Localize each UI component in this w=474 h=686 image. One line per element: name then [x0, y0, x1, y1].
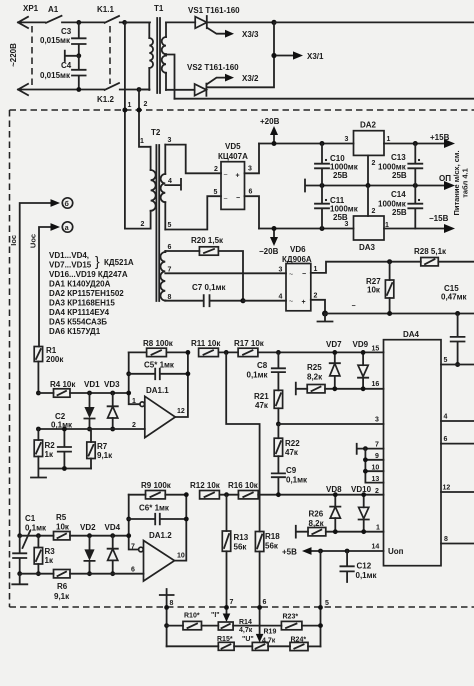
svg-text:10к: 10к: [367, 286, 381, 295]
svg-text:~: ~: [224, 196, 228, 203]
svg-text:−: −: [302, 271, 306, 278]
node C2 bottom: [62, 466, 67, 471]
capacitor C1: [13, 536, 26, 574]
resistor R3 label: [45, 547, 56, 565]
capacitor C13 label: [378, 153, 407, 180]
node fb C6: [126, 517, 131, 522]
node VD9 top: [361, 350, 366, 355]
relay link dashed: [109, 26, 111, 84]
capacitor C5: [129, 369, 188, 380]
diode VD7: [330, 352, 340, 388]
node mid C3/C4: [76, 53, 81, 58]
node VD9 bottom: [361, 386, 366, 391]
node pin9: [363, 457, 368, 462]
top output rail: [274, 21, 474, 23]
svg-text:A1: A1: [48, 5, 59, 14]
DA4 pin7 terminal bar: [357, 444, 384, 454]
-20V arrow: [259, 229, 279, 257]
svg-text:~220B: ~220B: [9, 43, 18, 67]
node R11 R17: [224, 350, 229, 355]
node VD10 bottom: [361, 529, 366, 534]
DA4 pin8 wire: [441, 543, 474, 545]
svg-text:DA4 КР1114ЕУ4: DA4 КР1114ЕУ4: [49, 308, 110, 317]
svg-text:~: ~: [224, 172, 228, 179]
resistor R10: [167, 621, 219, 629]
node C2 top: [62, 427, 67, 432]
DA4 pin5 wire: [441, 364, 474, 366]
R28 right wire: [438, 261, 474, 263]
feedback left vertical DA12: [129, 495, 139, 550]
VD5 pin6 wire down: [245, 196, 260, 228]
node R21 R22: [276, 422, 281, 427]
node VD4 bottom: [110, 571, 115, 576]
DA4 pin6 wire: [441, 443, 474, 445]
XP1 terminal arrow top: [18, 17, 45, 28]
node VD7 top: [332, 350, 337, 355]
svg-text:R7: R7: [97, 442, 108, 451]
svg-text:VD3: VD3: [104, 380, 120, 389]
svg-text:1: 1: [314, 266, 318, 273]
svg-text:R16 10к: R16 10к: [228, 481, 259, 490]
svg-text:R6: R6: [57, 582, 68, 591]
capacitor C8: [272, 352, 285, 390]
svg-text:−15B: −15B: [429, 214, 449, 223]
feedback left vertical DA11: [129, 352, 140, 404]
arrow X3/1: [277, 51, 324, 61]
capacitor C13: [408, 144, 422, 186]
svg-text:1: 1: [128, 102, 132, 109]
resistor R9: [129, 491, 187, 499]
svg-text:VS2 T161-160: VS2 T161-160: [187, 63, 239, 72]
node top C3: [76, 20, 81, 25]
svg-text:1: 1: [376, 525, 380, 532]
svg-text:47к: 47к: [255, 401, 269, 410]
svg-text:DA3: DA3: [359, 243, 376, 252]
diode VD1: [84, 393, 94, 429]
node out R9: [184, 492, 189, 497]
bridge VD5: [221, 162, 245, 210]
svg-text:0,015мк: 0,015мк: [40, 36, 71, 45]
VD6 pin2 wire: [311, 300, 325, 314]
node +20 arrow: [272, 141, 277, 146]
svg-text:R2: R2: [45, 441, 56, 450]
svg-text:5: 5: [325, 600, 329, 607]
svg-text:C8: C8: [257, 361, 268, 370]
T2 secondary2 winding: [160, 251, 165, 301]
svg-text:"I": "I": [211, 612, 220, 619]
node 5 border: [318, 605, 323, 610]
svg-text:DA2: DA2: [360, 121, 377, 130]
node R12 R16: [224, 492, 229, 497]
svg-text:25B: 25B: [392, 171, 407, 180]
T2 center tap tick: [165, 179, 181, 190]
svg-text:8: 8: [444, 536, 448, 543]
IC DA4: [384, 340, 442, 566]
svg-text:+15B: +15B: [430, 133, 450, 142]
node fb C5: [126, 371, 131, 376]
svg-text:8,2к: 8,2к: [307, 373, 323, 382]
resistor R13 label: [234, 533, 249, 552]
node -20 arrow: [272, 226, 277, 231]
svg-text:8: 8: [170, 600, 174, 607]
diode VD2: [84, 536, 94, 574]
node C15 top: [455, 311, 460, 316]
node VD1 bottom: [87, 427, 92, 432]
svg-text:Uос: Uос: [29, 234, 38, 248]
svg-text:3: 3: [279, 267, 283, 274]
svg-text:VS1 T161-160: VS1 T161-160: [188, 6, 240, 15]
svg-text:+5B: +5B: [282, 548, 297, 557]
svg-text:56к: 56к: [234, 543, 248, 552]
+5V arrow: [282, 547, 312, 556]
feedback tap arrow b: [20, 199, 60, 535]
terminal circle a: [62, 222, 72, 232]
svg-text:9: 9: [375, 453, 379, 460]
svg-text:0,1мк: 0,1мк: [25, 524, 47, 533]
R25 terminal bar: [296, 383, 307, 395]
node pin10: [363, 469, 368, 474]
relay contact K1.2: [105, 83, 150, 90]
capacitor C11: [315, 186, 329, 229]
svg-text:R20 1,5к: R20 1,5к: [191, 236, 224, 245]
node out C5: [186, 371, 191, 376]
feedback tap arrow a: [39, 223, 60, 346]
node X3/1: [271, 53, 276, 58]
svg-text:10: 10: [177, 553, 185, 560]
node sense8 border: [164, 605, 169, 610]
regulator DA2: [354, 131, 385, 156]
minus rail: [325, 313, 474, 315]
svg-text:47к: 47к: [285, 448, 299, 457]
+20V rail: [259, 143, 354, 145]
ground symbol R2: [31, 469, 46, 478]
node R27 top: [387, 259, 392, 264]
svg-text:2: 2: [132, 422, 136, 429]
resistor R6: [54, 570, 71, 578]
resistor R26: [308, 528, 384, 536]
VS1 cathode wire: [207, 21, 274, 23]
svg-text:0,015мк: 0,015мк: [40, 71, 71, 80]
resistor R19: [252, 642, 290, 650]
node OP C13C14: [413, 183, 418, 188]
common terminal bar bottom: [160, 589, 174, 646]
svg-text:−: −: [236, 195, 240, 202]
resistor R16: [238, 491, 383, 499]
regulator DA3: [354, 216, 385, 240]
node VD10 top: [361, 492, 366, 497]
capacitor C9: [272, 456, 285, 495]
svg-text:C12: C12: [357, 562, 372, 571]
svg-text:R5: R5: [56, 513, 67, 522]
XP1 terminal arrow bottom: [18, 84, 104, 95]
DA3 out wire: [384, 228, 446, 230]
VD6 pin1 wire: [311, 262, 421, 273]
svg-text:КЦ407А: КЦ407А: [218, 152, 248, 161]
svg-text:R4 10к: R4 10к: [50, 380, 76, 389]
node C10 top: [320, 141, 325, 146]
diode VD8: [330, 495, 340, 532]
svg-text:DA4: DA4: [403, 330, 420, 339]
node VD1 top: [87, 391, 92, 396]
resistor R2 label: [45, 441, 56, 459]
svg-text:C9: C9: [286, 466, 297, 475]
XP1 dashed link: [31, 26, 33, 86]
svg-text:R13: R13: [234, 533, 249, 542]
resistor R6 label: [54, 582, 70, 601]
resistor R14: [218, 622, 281, 630]
node U border: [257, 605, 262, 610]
capacitor C3: [72, 22, 86, 55]
capacitor C8 label: [247, 361, 269, 380]
node OP C10C11: [320, 183, 325, 188]
svg-text:+20B: +20B: [260, 117, 280, 126]
thyristor VS1: [195, 16, 207, 28]
svg-text:9,1к: 9,1к: [54, 592, 70, 601]
node wire2 on border: [137, 108, 142, 113]
svg-text:3: 3: [345, 136, 349, 143]
svg-text:T2: T2: [151, 128, 161, 137]
svg-text:5: 5: [168, 222, 172, 229]
node C1 top: [17, 533, 22, 538]
node C15 pin5: [455, 362, 460, 367]
resistor R28: [421, 258, 439, 266]
svg-text:14: 14: [372, 544, 380, 551]
node VD3 top: [110, 391, 115, 396]
resistor R5 label: [56, 513, 70, 532]
+15V arrow: [430, 133, 455, 148]
svg-text:−20B: −20B: [259, 247, 279, 256]
capacitor C11 label: [330, 196, 359, 222]
svg-text:VD4: VD4: [105, 523, 121, 532]
DA2 gnd wire: [367, 155, 369, 185]
capacitor C9 label: [286, 466, 308, 485]
svg-text:DA3 КР1168ЕН15: DA3 КР1168ЕН15: [49, 299, 115, 308]
svg-text:25B: 25B: [333, 171, 348, 180]
node R1R2: [36, 427, 41, 432]
resistor R18 label: [265, 532, 280, 551]
svg-text:DA5 К554СА3Б: DA5 К554СА3Б: [49, 318, 107, 327]
node railA left: [164, 623, 169, 628]
wiper arrow R14: [223, 614, 231, 623]
svg-text:R12 10к: R12 10к: [190, 481, 221, 490]
DA12 output vertical: [175, 495, 187, 561]
svg-text:}: }: [95, 253, 100, 269]
gnd join rail: [38, 468, 91, 470]
node R20/C7: [240, 298, 245, 303]
svg-text:0,1мк: 0,1мк: [286, 476, 308, 485]
svg-text:12: 12: [443, 485, 451, 492]
node VD8 top: [333, 492, 338, 497]
resistor R1 label: [46, 346, 64, 364]
resistor R4: [38, 389, 128, 397]
parts list: [49, 251, 134, 336]
svg-text:R19: R19: [264, 629, 277, 636]
svg-text:VD10: VD10: [351, 485, 372, 494]
capacitor C15: [451, 314, 465, 365]
svg-text:2: 2: [375, 488, 379, 495]
svg-text:0,47мк: 0,47мк: [441, 293, 467, 302]
bottom output rail: [175, 98, 474, 100]
T1 secondary top wire: [166, 21, 195, 23]
svg-text:10к: 10к: [56, 523, 70, 532]
svg-text:X3/3: X3/3: [242, 30, 259, 39]
R26 terminal bar: [296, 526, 308, 538]
DA1.1 pin1 bubble: [140, 402, 145, 407]
svg-text:0,1мк: 0,1мк: [51, 421, 73, 430]
capacitor C4: [72, 56, 86, 90]
OP arrow: [439, 174, 455, 190]
svg-text:Uоп: Uоп: [388, 547, 404, 556]
svg-text:C6* 1мк: C6* 1мк: [139, 504, 170, 513]
svg-text:R9 100к: R9 100к: [141, 481, 172, 490]
DA12 plus rail top: [20, 535, 129, 537]
svg-text:2: 2: [372, 160, 376, 167]
svg-text:R28 5,1к: R28 5,1к: [414, 247, 447, 256]
node C12 top: [345, 549, 350, 554]
resistor R21: [274, 390, 282, 424]
svg-text:VD9: VD9: [353, 340, 369, 349]
DA4 pin4 wire: [441, 420, 474, 422]
svg-text:R23*: R23*: [283, 614, 299, 621]
capacitor C2 label: [51, 412, 73, 430]
capacitor C14: [408, 186, 422, 229]
node wire1 on border: [122, 108, 127, 113]
node C13 top: [413, 141, 418, 146]
svg-text:табл 4.1: табл 4.1: [461, 168, 470, 198]
svg-text:DA1.1: DA1.1: [146, 386, 169, 395]
power table note: [452, 150, 470, 215]
VD6 label: [282, 245, 312, 264]
resistor R19 label: [262, 629, 276, 645]
node C1 bottom: [17, 571, 22, 576]
transformer T2 core: [156, 145, 159, 301]
resistor R14 label: [239, 619, 253, 634]
diode VD4: [108, 536, 118, 574]
svg-text:R25: R25: [307, 363, 322, 372]
svg-text:4: 4: [444, 414, 448, 421]
svg-text:56к: 56к: [265, 542, 279, 551]
svg-text:R3: R3: [45, 547, 56, 556]
resistor R13: [222, 495, 230, 615]
svg-text:X3/1: X3/1: [307, 52, 324, 61]
svg-text:R8 100к: R8 100к: [143, 339, 174, 348]
node R3 top: [36, 533, 41, 538]
DA12 minus rail bottom: [20, 573, 144, 575]
capacitor C10 label: [330, 154, 359, 180]
node C11 bottom: [320, 226, 325, 231]
resistor R7 label: [97, 442, 113, 460]
svg-text:DA1.2: DA1.2: [149, 531, 172, 540]
svg-text:C13: C13: [391, 153, 406, 162]
resistor R7: [87, 429, 95, 469]
svg-text:T1: T1: [154, 4, 164, 13]
svg-text:3: 3: [168, 137, 172, 144]
svg-text:6: 6: [131, 567, 135, 574]
svg-text:−: −: [352, 303, 356, 310]
capacitor C2: [58, 429, 71, 469]
svg-text:R22: R22: [285, 439, 300, 448]
bridge VD6: [286, 264, 311, 311]
node fb rail: [126, 533, 131, 538]
svg-text:VD5: VD5: [225, 142, 241, 151]
svg-text:VD6: VD6: [290, 245, 306, 254]
T2 secondary1 winding: [161, 145, 166, 230]
capacitor C7: [165, 295, 243, 306]
resistor R26 label: [309, 510, 325, 529]
svg-text:13: 13: [372, 476, 380, 483]
capacitor C14 label: [378, 190, 407, 217]
svg-text:VD7: VD7: [326, 340, 342, 349]
svg-text:K1.1: K1.1: [97, 5, 114, 14]
resistor R1: [34, 347, 42, 394]
diode VD3: [108, 393, 118, 429]
node +5 tie: [318, 549, 323, 554]
node OP DA2DA3: [366, 183, 371, 188]
svg-text:2: 2: [141, 221, 145, 228]
transformer T1 core: [157, 18, 160, 93]
transformer T1 primary: [125, 22, 153, 90]
resistor R21 label: [254, 392, 269, 410]
wire 2 vertical to T2: [139, 90, 151, 147]
svg-text:2: 2: [144, 101, 148, 108]
svg-text:~: ~: [289, 299, 293, 306]
svg-text:15: 15: [372, 346, 380, 353]
opamp DA1.2: [144, 541, 175, 582]
svg-text:10: 10: [372, 465, 380, 472]
VD5 pin3 wire up: [245, 144, 260, 174]
pin6 wire: [165, 250, 199, 252]
DA4 pin14 wire: [310, 550, 384, 552]
svg-text:12: 12: [177, 408, 185, 415]
svg-text:R21: R21: [254, 392, 269, 401]
resistor R27: [385, 262, 393, 314]
resistor R25 label: [307, 363, 323, 382]
DA4 pin9 stub: [365, 459, 383, 461]
resistor R22: [274, 424, 282, 456]
svg-text:DA6 К157УД1: DA6 К157УД1: [49, 327, 101, 336]
svg-text:3: 3: [345, 221, 349, 228]
relay contact K1.1: [105, 16, 150, 23]
resistor R20: [199, 247, 218, 255]
node bottom wire 2: [137, 87, 142, 92]
capacitor C1 label: [25, 514, 47, 533]
node R1/R4: [36, 391, 41, 396]
transformer T1 secondary: [162, 22, 166, 90]
resistor R23: [281, 621, 320, 629]
thyristor VS2: [195, 84, 207, 96]
svg-text:б: б: [65, 200, 70, 208]
node out C6: [184, 517, 189, 522]
svg-text:0,1мк: 0,1мк: [356, 571, 378, 580]
svg-text:2: 2: [314, 293, 318, 300]
T2 pin3 wire to VD5: [165, 145, 221, 174]
svg-text:+: +: [236, 173, 240, 180]
svg-text:6: 6: [249, 189, 253, 196]
svg-text:4: 4: [279, 294, 283, 301]
node VD7 bottom: [332, 386, 337, 391]
DA3 gnd wire: [367, 186, 369, 217]
node top T wire: [122, 20, 127, 25]
resistor R24: [290, 642, 321, 650]
node VD3 bottom: [110, 427, 115, 432]
svg-text:C3: C3: [61, 27, 72, 36]
svg-text:R17 10к: R17 10к: [234, 339, 265, 348]
svg-text:5: 5: [444, 357, 448, 364]
terminal circle b: [62, 198, 72, 208]
svg-text:C4: C4: [61, 61, 72, 70]
svg-text:3: 3: [375, 417, 379, 424]
capacitor C6: [129, 514, 187, 525]
